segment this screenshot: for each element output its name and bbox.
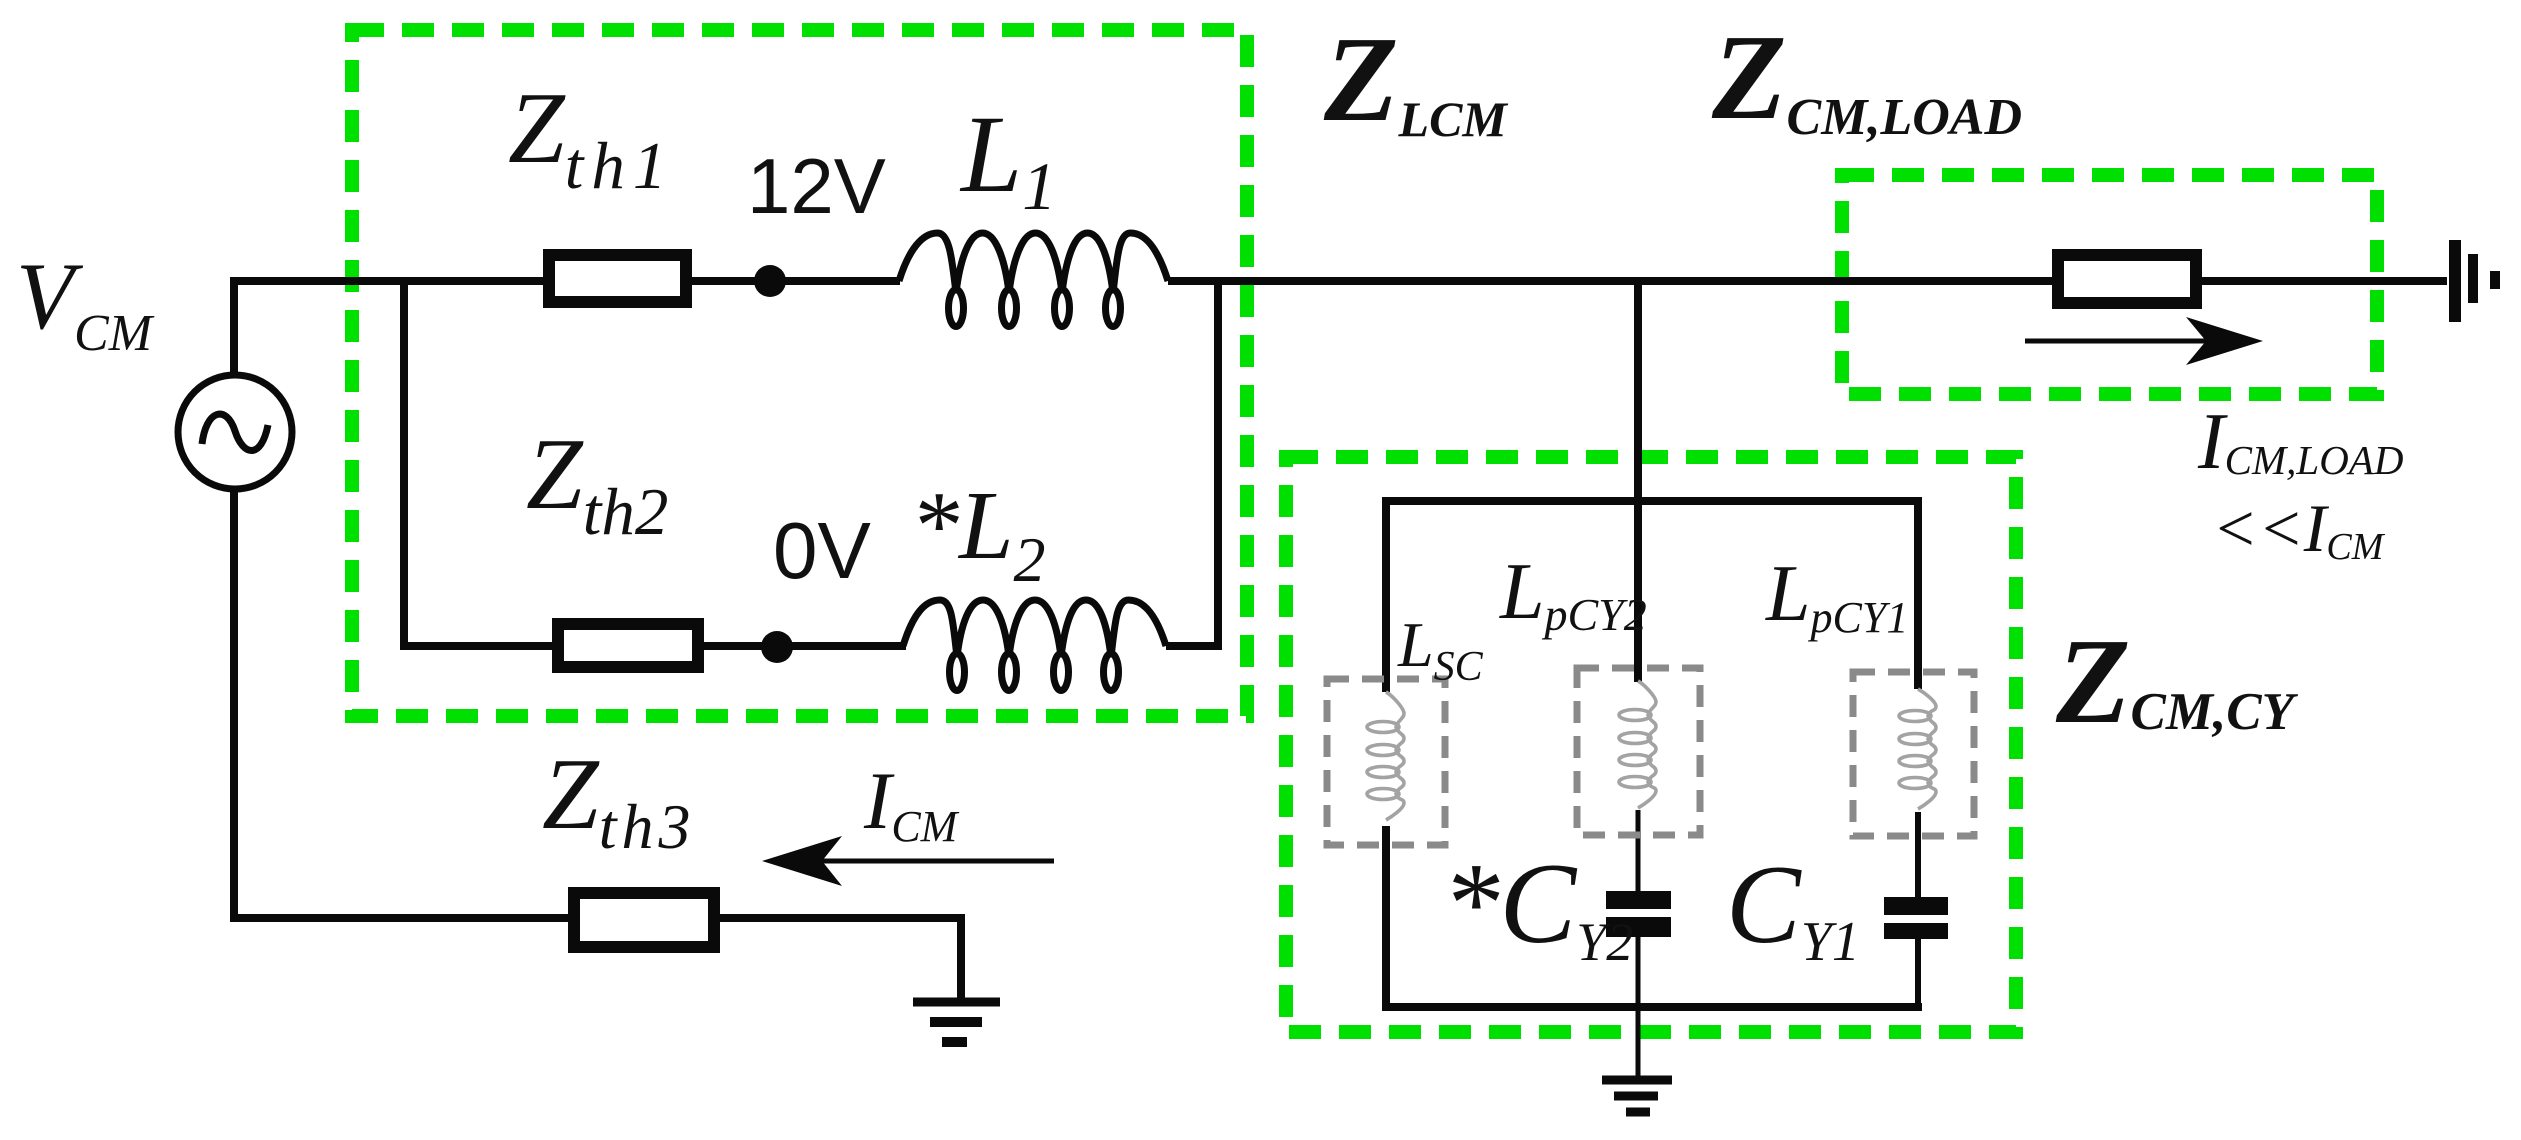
- green dashed box Z_CM,LOAD region: [1842, 175, 2377, 394]
- gray coil L_SC: [1367, 692, 1404, 820]
- node 12V dot: [754, 265, 786, 297]
- inductor L2: [903, 600, 1166, 691]
- wire main top: [230, 277, 2447, 1000]
- gray coil L_pCY1: [1899, 689, 1936, 809]
- node 0V dot: [761, 631, 793, 663]
- wire down to ground bottom-left: [957, 914, 965, 1000]
- resistor Z_CM,LOAD: [2058, 255, 2196, 303]
- arrow I_CM (pointing left): [800, 859, 1054, 864]
- parasitic box L_SC: [1327, 679, 1445, 845]
- wire bottom to Zth3: [230, 914, 570, 922]
- resistor Z_th1: [549, 255, 686, 302]
- svg-text:12V: 12V: [747, 142, 886, 230]
- ground bottom-left: [913, 1002, 1000, 1042]
- svg-text:0V: 0V: [773, 506, 871, 595]
- inductor L1: [899, 233, 1168, 327]
- gray coil L_pCY2: [1619, 681, 1656, 808]
- resistor Z_th2: [558, 624, 698, 667]
- wire left vertical to source: [230, 277, 238, 376]
- resistor Z_th3: [574, 893, 714, 947]
- wire middle branch down to CY coil: [1634, 281, 1642, 682]
- ground right (rotated): [2455, 240, 2495, 322]
- inner solid box of CY network: [1382, 497, 1922, 1011]
- capacitor C_Y2: [1606, 891, 1671, 909]
- AC source V_CM: [178, 375, 292, 489]
- green dashed box Z_LCM region: [352, 30, 1247, 716]
- wire branch vertical x=404: [400, 277, 408, 646]
- wire L2 right vertical up: [1214, 277, 1222, 650]
- wire L2 row: [400, 642, 555, 650]
- parasitic box L_pCY1: [1853, 672, 1974, 836]
- arrow I_CM,LOAD (pointing right): [2025, 339, 2230, 344]
- green dashed box Z_CM,CY region: [1286, 457, 2016, 1032]
- capacitor C_Y1: [1884, 897, 1948, 915]
- ground middle (below CY box): [1602, 1080, 1672, 1112]
- parasitic box L_pCY2: [1577, 668, 1700, 835]
